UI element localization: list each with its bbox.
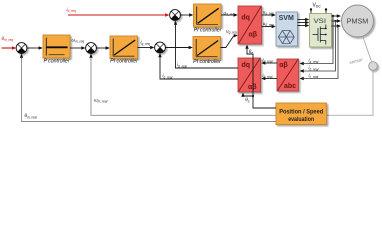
svg-text:evaluation: evaluation (288, 117, 314, 123)
summing junction S2 (speed error) (86, 43, 97, 54)
summing junction S4 (id error) (170, 10, 181, 21)
summing junction S3 (iq error) (155, 42, 166, 53)
node theta_e label upper (249, 49, 254, 55)
svg-text:sensor: sensor (349, 57, 364, 65)
wire omega_m_real feedback to S2 (89, 54, 276, 116)
svg-text:uα_req: uα_req (263, 9, 274, 15)
svg-text:VSI: VSI (314, 18, 327, 25)
wire i_q_real feedback to S3 (158, 53, 238, 79)
transform block alpha-beta to dq (Park) (238, 58, 261, 92)
sensor (369, 62, 378, 71)
PI controller U2 (speed) block (110, 36, 138, 59)
wire i_d_req input (red) (68, 13, 169, 16)
svg-text:uβ_req: uβ_req (263, 21, 274, 27)
svg-text:iq_req: iq_req (141, 40, 150, 46)
transform block abc to alpha-beta (Clarke) (277, 59, 299, 91)
VSI inverter block (310, 14, 332, 48)
node i_d_req label (red) (67, 7, 76, 13)
wire u_alpha_req to SVM (262, 9, 276, 16)
wire SVM to VSI gate signal b (298, 21, 310, 24)
wire S2 to PI controller 1 (97, 46, 110, 49)
svg-text:iβ_real: iβ_real (263, 73, 273, 79)
P controller block (43, 35, 70, 58)
PMSM motor (342, 5, 374, 37)
svg-text:ic_real: ic_real (309, 73, 319, 79)
svg-text:SVM: SVM (279, 15, 294, 22)
wire S3 to PI controller 3 (iq) (166, 46, 193, 49)
wire i_d_real feedback to S4 (174, 21, 238, 69)
wire V_DC positive terminal (310, 8, 312, 13)
svg-text:ia_real: ia_real (309, 58, 319, 64)
junction tap phase a (300, 15, 335, 65)
svg-text:θm_req: θm_req (2, 36, 14, 42)
wire S4 to PI controller 4 (id) (181, 13, 194, 16)
wire theta_e to Park transforms (241, 45, 276, 109)
svg-text:dq: dq (241, 15, 250, 22)
wire PI3 to dq/ab transform, node u_q_req (221, 28, 238, 47)
wire PI1 to S3, node i_q_req (138, 40, 155, 50)
wire PMSM to sensor shaft (363, 36, 372, 62)
svg-text:ud_req: ud_req (224, 10, 235, 16)
wire SVM to VSI gate signal a (298, 18, 310, 21)
PI controller U4 label (194, 28, 222, 34)
node V_DC label (313, 3, 322, 9)
svg-text:id_real: id_real (177, 62, 187, 68)
junction tap phase c (300, 25, 340, 80)
svg-text:PMSM: PMSM (347, 18, 369, 25)
svg-text:θm_real: θm_real (25, 113, 38, 119)
wire VSI to PMSM phase b (332, 19, 342, 22)
svg-text:ωm_real: ωm_real (94, 97, 108, 103)
wire P controller to S2, node omega_m_req (70, 37, 86, 49)
Position / Speed evaluation block (276, 103, 327, 125)
svg-text:VDC: VDC (313, 3, 322, 9)
PI controller U3 (iq current) block (193, 37, 221, 60)
summing junction S1 (position error) (16, 43, 27, 54)
wire SVM to VSI gate signal c (298, 24, 310, 27)
wire theta_m_real feedback to S1 (20, 54, 276, 122)
svg-text:iα_real: iα_real (263, 57, 273, 63)
P controller label (43, 58, 69, 64)
svg-text:abc: abc (284, 83, 296, 90)
wire VSI to PMSM phase c (332, 24, 342, 27)
wire S1 to P controller (27, 46, 43, 49)
wire VSI to PMSM phase a (332, 14, 342, 17)
wire V_DC negative terminal (325, 8, 327, 13)
svg-text:dq: dq (242, 62, 251, 69)
svg-text:ib_real: ib_real (309, 65, 319, 71)
svg-text:PI controller: PI controller (194, 28, 222, 34)
svg-text:αβ: αβ (249, 32, 258, 39)
svg-text:uq_req: uq_req (226, 28, 237, 34)
PI controller U3 label (193, 59, 221, 65)
svg-text:PI controller: PI controller (193, 59, 221, 65)
SVM block (276, 12, 298, 46)
wire PI4 to dq/ab transform, node u_d_req (221, 10, 238, 16)
transform block dq to alpha-beta (inverse Park) (238, 6, 262, 44)
svg-text:ωm_req: ωm_req (72, 37, 85, 43)
PI controller U2 label (110, 59, 138, 65)
svg-text:PI controller: PI controller (110, 59, 138, 65)
wire i_beta_real to Park (261, 73, 277, 80)
svg-text:θe: θe (245, 97, 250, 103)
svg-text:P controller: P controller (43, 58, 69, 64)
wire sensor to position/speed evaluation (327, 70, 373, 115)
wire i_alpha_real to Park (261, 57, 277, 64)
junction tap phase b (300, 20, 337, 73)
node theta_m_req label (2, 36, 14, 42)
svg-text:id_req: id_req (67, 7, 76, 13)
PI controller U4 (id current) block (194, 4, 222, 27)
wire theta_m_req input (red) (2, 46, 17, 49)
svg-text:αβ: αβ (279, 62, 288, 69)
svg-text:Position / Speed: Position / Speed (279, 110, 323, 116)
svg-text:iq_real: iq_real (163, 73, 173, 79)
sensor label (349, 57, 364, 65)
wire u_beta_req to SVM (262, 21, 276, 28)
node theta_e label lower (245, 97, 250, 103)
